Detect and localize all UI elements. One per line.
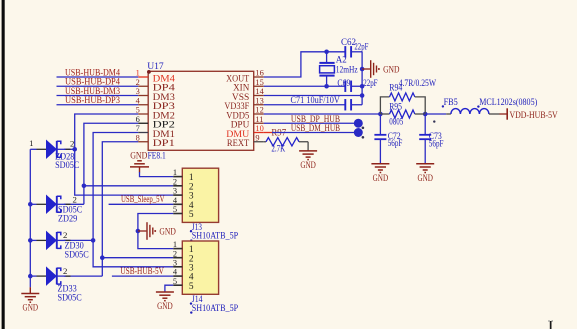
svg-text:USB-HUB-DP3: USB-HUB-DP3 <box>65 95 120 106</box>
svg-text:10: 10 <box>255 124 263 133</box>
crystal A2 <box>319 52 357 86</box>
pin 6 (DP2) of U17 <box>136 115 175 131</box>
wire C69 right <box>351 85 362 87</box>
svg-text:GND: GND <box>383 65 399 76</box>
junction gnd tap column <box>360 67 365 72</box>
wire VSS row <box>264 95 362 97</box>
ground C73 <box>416 164 434 184</box>
diode ZD33 <box>47 268 71 285</box>
svg-text:14: 14 <box>255 87 264 96</box>
capacitor C72 <box>374 114 402 164</box>
wire USB-HUB-5V <box>112 275 173 277</box>
wire anode stub ZD30 <box>30 239 46 241</box>
stray dot 1 <box>433 120 435 122</box>
junction DP1/J14-2 <box>100 255 105 260</box>
label J14 <box>190 295 238 314</box>
pin 1 (DM4) of U17 <box>136 69 175 85</box>
label ZD29 <box>58 204 82 223</box>
svg-text:GND: GND <box>300 160 316 171</box>
pin 2 label ZD30 <box>63 230 67 240</box>
pin 5 of J13 <box>173 205 194 220</box>
pin 3 (DM3) of U17 <box>136 87 175 103</box>
pin 10 (DMU) of U17 <box>226 124 263 140</box>
wire pin9 to R97 <box>264 141 266 143</box>
svg-text:SH10ATB_5P: SH10ATB_5P <box>192 231 239 241</box>
pin 2 label ZD28 <box>70 139 74 149</box>
svg-text:5: 5 <box>189 210 194 220</box>
pin 3 of J14 <box>173 258 194 273</box>
svg-text:22pF: 22pF <box>354 42 368 52</box>
junction crystal bottom <box>324 84 329 89</box>
pin 2 label ZD29 <box>73 195 77 205</box>
wire DP1 branch to J14 pin2 <box>102 257 173 259</box>
junction ZD30 anode <box>28 238 33 243</box>
svg-text:GND: GND <box>23 303 39 314</box>
pin 4 (DP3) of U17 <box>136 96 175 112</box>
resistor R97 <box>266 127 308 153</box>
wire anode stub ZD28 <box>30 148 46 150</box>
svg-text:2: 2 <box>173 249 177 258</box>
wire DP2 pin6 to J13 pin2 <box>84 123 138 204</box>
svg-text:SD05C: SD05C <box>65 249 89 259</box>
svg-text:USB_DM_HUB: USB_DM_HUB <box>291 123 340 133</box>
svg-text:FE8.1: FE8.1 <box>148 150 166 161</box>
net label USB-HUB-5V <box>120 266 164 276</box>
junction DM2/ZD28 <box>72 147 77 152</box>
pin 2 (DP4) of U17 <box>136 78 175 94</box>
junction ZD29 anode <box>28 202 33 207</box>
pin 8 (DP1) of U17 <box>136 133 175 149</box>
wire right column <box>361 52 363 105</box>
wire DM2 pin5 to J13 pin3 <box>75 114 174 195</box>
wire VDD5 row <box>264 113 381 115</box>
wire node to FB5 <box>425 113 446 115</box>
pin 13 (VD33F) of U17 <box>224 96 263 112</box>
svg-text:GND: GND <box>157 301 173 312</box>
svg-text:SD05C: SD05C <box>58 293 82 303</box>
svg-text:16: 16 <box>255 69 263 78</box>
wire anode stub ZD29 <box>30 203 46 205</box>
wire USB-HUB-DM4 <box>57 76 139 78</box>
junction DP2/J13-2 <box>82 184 87 189</box>
wire VD33F to C71 <box>264 104 346 106</box>
svg-text:56pF: 56pF <box>388 138 403 148</box>
diode ZD30 <box>47 232 71 249</box>
junction node left <box>378 112 383 117</box>
svg-text:22pF: 22pF <box>363 78 377 88</box>
junction crystal top <box>324 50 329 55</box>
svg-text:0805: 0805 <box>389 117 403 127</box>
svg-text:2: 2 <box>63 230 67 240</box>
ground C72 <box>371 164 389 184</box>
pin 7 (DM1) of U17 <box>136 124 175 140</box>
pin 2 of J13 <box>173 177 194 192</box>
junction DM1/ZD30 <box>91 238 96 243</box>
svg-text:15: 15 <box>255 78 263 87</box>
svg-text:12mHz: 12mHz <box>336 65 358 75</box>
svg-text:56pF: 56pF <box>429 139 444 149</box>
net label USB-HUB-DM3 <box>65 86 120 97</box>
svg-text:8: 8 <box>136 133 140 142</box>
pin 1 of J13 <box>173 168 194 183</box>
label ZD28 <box>55 152 79 171</box>
pin 4 of J13 <box>173 196 194 211</box>
wire USB_Sleep_5V <box>109 203 174 205</box>
svg-text:5: 5 <box>173 277 177 286</box>
svg-text:SD05C: SD05C <box>55 160 79 170</box>
wire DPU row <box>264 122 355 124</box>
cursor <box>548 321 553 329</box>
wire DM1 to ZD30 <box>64 239 93 241</box>
wire C62 right <box>351 51 362 53</box>
label J13 <box>190 223 238 242</box>
wire R97 to ground <box>307 142 309 151</box>
svg-text:C69: C69 <box>337 78 350 88</box>
net label USB-HUB-DM4 <box>65 67 120 78</box>
svg-text:USB_Sleep_5V: USB_Sleep_5V <box>121 194 165 204</box>
svg-text:7: 7 <box>136 124 140 133</box>
ground mid (bar style) <box>138 222 176 240</box>
svg-text:12: 12 <box>255 106 263 115</box>
capacitor C71 <box>291 96 352 110</box>
svg-text:ZD29: ZD29 <box>58 213 78 223</box>
svg-text:2: 2 <box>73 195 77 205</box>
svg-text:GND: GND <box>159 227 175 238</box>
wire DP2 branch to J13 pin2 <box>84 185 173 187</box>
wire DP2 to ZD29 <box>64 203 84 205</box>
svg-text:A2: A2 <box>336 56 347 66</box>
junction node right <box>423 112 428 117</box>
net label USB_Sleep_5V <box>121 194 165 204</box>
wire USB-HUB-DP3 <box>57 104 139 106</box>
svg-text:2: 2 <box>173 177 177 186</box>
svg-text:2.7K: 2.7K <box>271 143 285 153</box>
diode ZD29 <box>47 196 71 213</box>
ground J14 pin5 <box>156 292 174 312</box>
svg-text:FB5: FB5 <box>444 97 459 107</box>
wire J13 pin5 to J14 pin1 <box>138 214 173 249</box>
capacitor C62 <box>341 37 368 58</box>
svg-text:1: 1 <box>29 138 33 148</box>
svg-text:13: 13 <box>255 96 263 105</box>
power port VDD-HUB-5V <box>500 108 558 121</box>
svg-text:VDD-HUB-5V: VDD-HUB-5V <box>510 110 558 121</box>
svg-text:SH10ATB_5P: SH10ATB_5P <box>192 303 239 313</box>
wire anode stub ZD33 <box>30 275 46 277</box>
wire USB-HUB-DP4 <box>57 85 139 87</box>
svg-text:2: 2 <box>63 266 67 276</box>
junction VSS column <box>360 93 365 98</box>
diode column wire <box>29 149 31 287</box>
connector J14 <box>182 241 218 294</box>
pin 2 of J14 <box>173 249 194 264</box>
pin 5 of J14 <box>173 277 194 292</box>
wire GND to J13 pin1 <box>140 172 174 177</box>
pin 5 (DM2) of U17 <box>136 106 175 122</box>
svg-text:11: 11 <box>255 115 263 124</box>
wire USB-HUB-DM3 <box>57 95 139 97</box>
pin 2 label ZD33 <box>63 266 67 276</box>
svg-text:3: 3 <box>173 187 177 196</box>
svg-text:USB-HUB-5V: USB-HUB-5V <box>120 266 164 276</box>
ground R97 <box>299 151 317 171</box>
wire ZD28 cathode <box>64 148 75 150</box>
svg-text:U17: U17 <box>147 61 164 72</box>
resistor R95 <box>380 102 425 127</box>
pin 15 (XIN) of U17 <box>233 78 264 94</box>
ground crystal (bar style) <box>362 60 399 78</box>
wire J14 pin5 to ground <box>165 285 173 292</box>
svg-text:2: 2 <box>70 139 74 149</box>
wire C71 right <box>351 104 362 106</box>
svg-text:MCL1202s(0805): MCL1202s(0805) <box>479 97 537 107</box>
wire DP1 to ZD33 <box>64 275 102 277</box>
net label GNDFE8.1 <box>130 150 166 161</box>
diode ZD28 <box>47 141 71 158</box>
svg-text:GND: GND <box>130 150 147 161</box>
label ZD33 <box>58 283 82 302</box>
svg-text:9: 9 <box>255 133 259 142</box>
svg-text:1: 1 <box>173 168 177 177</box>
junction GND tap <box>136 229 141 234</box>
label ZD30 <box>65 241 89 260</box>
svg-text:4.7R/0.25W: 4.7R/0.25W <box>399 78 437 88</box>
inductor FB5 <box>442 97 538 114</box>
wire XOUT to C62 <box>264 52 346 77</box>
wire XIN row <box>264 85 346 87</box>
wire DM1 pin7 to J14 pin3 <box>93 133 173 267</box>
ground J13 pin1 <box>130 160 149 172</box>
svg-text:3: 3 <box>173 258 177 267</box>
pin 12 (VDD5) of U17 <box>226 106 263 122</box>
svg-text:5: 5 <box>189 282 194 292</box>
pin 4 of J14 <box>173 268 194 283</box>
pin 11 (DPU) of U17 <box>231 115 264 131</box>
pin 1 label ZD28 <box>29 138 33 148</box>
svg-text:DP1: DP1 <box>153 138 175 149</box>
net label USB-HUB-DP3 <box>65 95 120 106</box>
junction C69 column <box>360 84 365 89</box>
node USB DM HUB <box>291 123 364 139</box>
net label USB-HUB-DP4 <box>65 77 120 88</box>
pin 14 (VSS) of U17 <box>232 87 265 103</box>
pin 16 (XOUT) of U17 <box>226 69 264 85</box>
svg-text:GND: GND <box>373 173 389 184</box>
svg-text:1: 1 <box>173 240 177 249</box>
pin 9 (REXT) of U17 <box>227 133 264 149</box>
pin 3 of J13 <box>173 187 194 202</box>
svg-text:REXT: REXT <box>227 138 249 149</box>
svg-text:C71 10uF/10V: C71 10uF/10V <box>291 96 341 106</box>
capacitor C69 <box>337 78 377 92</box>
wire DP1 pin8 down <box>102 142 138 276</box>
resistor R94 <box>380 78 436 114</box>
svg-text:5: 5 <box>173 205 177 214</box>
pin 1 of J14 <box>173 240 194 255</box>
capacitor C73 <box>419 114 443 164</box>
node USB DP HUB <box>291 114 364 129</box>
junction ZD33 anode <box>28 274 33 279</box>
IC U17 <box>147 61 254 150</box>
ground diode column <box>21 287 39 314</box>
wire DMU row <box>264 132 355 134</box>
svg-text:R95: R95 <box>389 102 402 112</box>
svg-text:GND: GND <box>417 173 433 184</box>
connector J13 <box>182 168 218 222</box>
